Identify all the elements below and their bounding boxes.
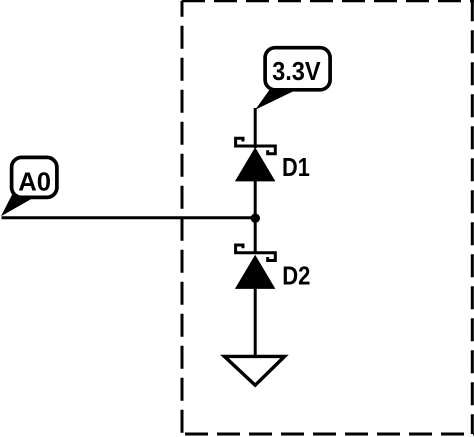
- wire: vertical from 3.3V callout tail down to D1 cathode: [254, 108, 257, 148]
- diode D2 (schottky) cathode bar with hooks: [236, 245, 276, 261]
- node junction dot at A0 net: [251, 214, 260, 223]
- callout 3.3V box: [265, 48, 330, 90]
- svg-text:A0: A0: [18, 166, 51, 196]
- callout A0 box: [12, 157, 57, 197]
- wire: horizontal net from A0 to junction: [2, 216, 257, 219]
- diode D1 anode triangle: [235, 147, 276, 181]
- wire: vertical from D2 anode down to ground: [254, 288, 257, 358]
- ground symbol: [224, 356, 284, 385]
- diode D1 (schottky) cathode bar with hooks: [236, 138, 276, 154]
- svg-text:D1: D1: [282, 152, 310, 182]
- dashed boundary box, right edge: [471, 1, 474, 434]
- svg-text:3.3V: 3.3V: [272, 56, 321, 86]
- dashed boundary box (IC internal boundary), top edge: [182, 0, 474, 2]
- wire: vertical from D1 anode through junction to D2 cathode: [254, 180, 257, 254]
- dashed boundary box, left edge: [181, 1, 184, 434]
- svg-text:D2: D2: [282, 260, 310, 290]
- diode D2 anode triangle: [235, 255, 276, 289]
- callout A0 tail: [1, 195, 36, 216]
- dashed boundary box, bottom edge: [185, 433, 474, 436]
- callout 3.3V tail: [255, 87, 296, 110]
